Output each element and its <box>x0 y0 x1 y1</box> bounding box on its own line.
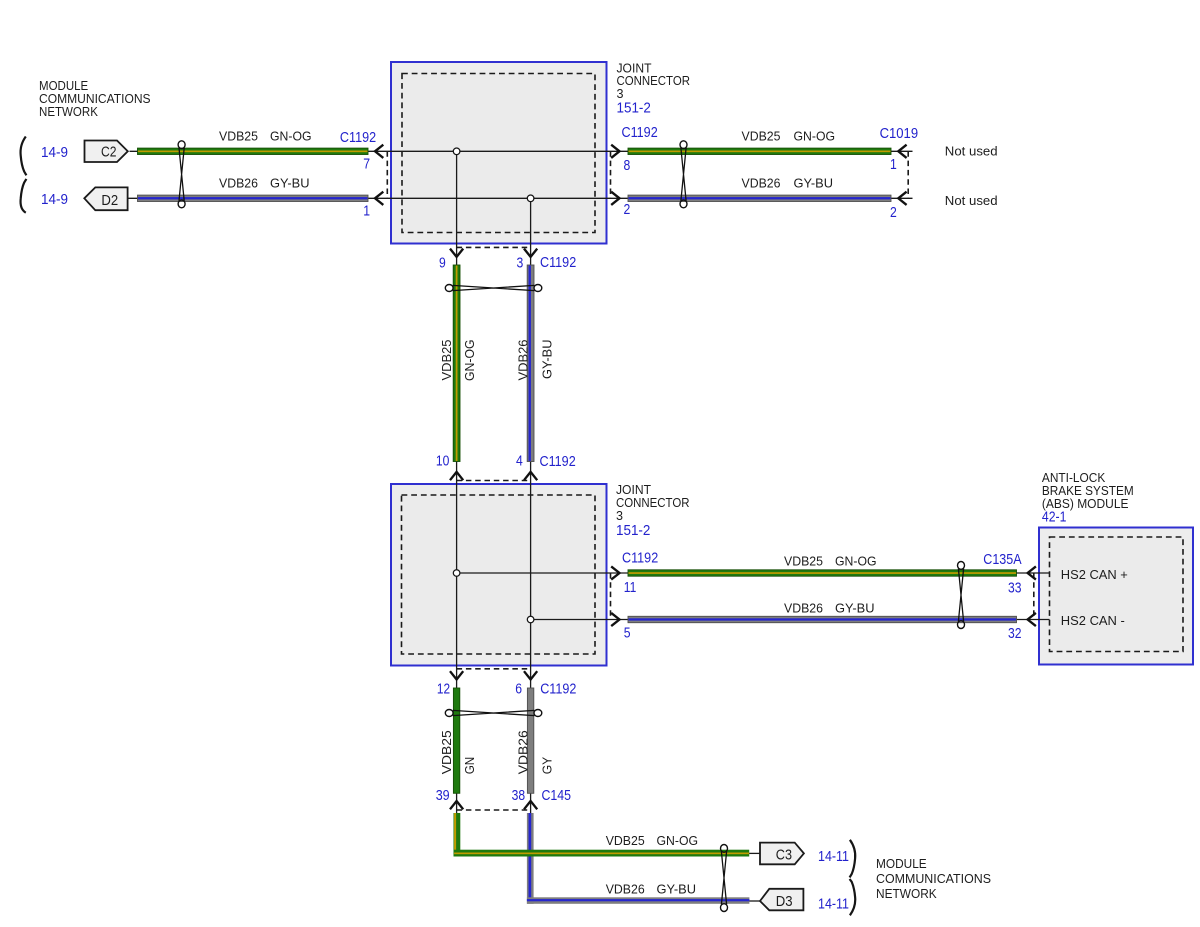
svg-text:C1192: C1192 <box>622 125 658 141</box>
svg-text:GY-BU: GY-BU <box>540 340 555 380</box>
svg-text:38: 38 <box>512 788 525 804</box>
svg-text:GY: GY <box>540 757 555 775</box>
svg-text:C1019: C1019 <box>880 126 919 142</box>
svg-text:GY-BU: GY-BU <box>794 176 834 191</box>
svg-text:10: 10 <box>436 454 450 470</box>
svg-text:Not used: Not used <box>945 193 998 208</box>
svg-text:VDB26: VDB26 <box>516 730 531 774</box>
svg-text:C2: C2 <box>101 145 117 161</box>
svg-text:D2: D2 <box>101 193 118 209</box>
svg-text:NETWORK: NETWORK <box>39 104 98 119</box>
svg-text:C1192: C1192 <box>622 551 658 567</box>
svg-text:1: 1 <box>363 204 370 220</box>
svg-text:33: 33 <box>1008 581 1022 597</box>
svg-text:GN-OG: GN-OG <box>835 554 877 569</box>
svg-text:32: 32 <box>1008 626 1022 642</box>
svg-text:VDB25: VDB25 <box>219 129 258 144</box>
svg-text:5: 5 <box>624 626 631 642</box>
svg-text:D3: D3 <box>776 894 793 910</box>
svg-text:2: 2 <box>890 205 897 221</box>
svg-text:14-11: 14-11 <box>818 849 849 865</box>
svg-text:2: 2 <box>624 202 631 218</box>
svg-text:14-9: 14-9 <box>41 145 68 161</box>
svg-text:VDB25: VDB25 <box>784 554 823 569</box>
svg-text:HS2 CAN +: HS2 CAN + <box>1061 567 1128 582</box>
svg-text:C135A: C135A <box>983 552 1022 568</box>
svg-text:3: 3 <box>517 255 524 271</box>
svg-text:GY-BU: GY-BU <box>270 176 310 191</box>
svg-text:9: 9 <box>439 255 446 271</box>
svg-text:VDB25: VDB25 <box>439 730 454 774</box>
svg-text:39: 39 <box>436 788 450 804</box>
svg-text:VDB26: VDB26 <box>219 176 258 191</box>
svg-text:12: 12 <box>437 682 450 698</box>
svg-text:11: 11 <box>624 580 637 596</box>
svg-text:VDB26: VDB26 <box>516 340 531 381</box>
svg-text:6: 6 <box>515 682 522 698</box>
svg-text:C1192: C1192 <box>340 130 376 146</box>
svg-text:C145: C145 <box>542 788 572 804</box>
svg-text:GY-BU: GY-BU <box>835 600 875 615</box>
svg-text:GN-OG: GN-OG <box>270 129 312 144</box>
svg-text:GN-OG: GN-OG <box>794 129 836 144</box>
svg-text:1: 1 <box>890 157 897 173</box>
svg-text:C1192: C1192 <box>540 255 576 271</box>
svg-text:GN-OG: GN-OG <box>657 833 699 848</box>
svg-text:3: 3 <box>617 86 624 101</box>
svg-text:8: 8 <box>624 158 631 174</box>
svg-text:C1192: C1192 <box>540 682 576 698</box>
svg-text:3: 3 <box>616 508 623 523</box>
svg-text:42-1: 42-1 <box>1042 509 1067 525</box>
svg-text:Not used: Not used <box>945 143 998 158</box>
svg-text:7: 7 <box>363 157 370 173</box>
svg-text:C1192: C1192 <box>540 454 576 470</box>
svg-text:CONNECTOR: CONNECTOR <box>616 495 690 510</box>
svg-text:VDB26: VDB26 <box>742 176 781 191</box>
svg-text:GN: GN <box>462 757 477 775</box>
svg-text:GY-BU: GY-BU <box>657 882 697 897</box>
svg-text:VDB25: VDB25 <box>439 340 454 381</box>
svg-text:GN-OG: GN-OG <box>462 340 477 382</box>
svg-text:C3: C3 <box>776 847 792 863</box>
svg-text:HS2 CAN -: HS2 CAN - <box>1061 613 1125 628</box>
svg-text:151-2: 151-2 <box>616 523 650 539</box>
svg-text:MODULE: MODULE <box>876 856 927 871</box>
svg-text:VDB25: VDB25 <box>742 129 781 144</box>
svg-text:151-2: 151-2 <box>617 100 651 116</box>
svg-text:VDB25: VDB25 <box>606 833 645 848</box>
svg-text:CONNECTOR: CONNECTOR <box>617 73 691 88</box>
svg-text:COMMUNICATIONS: COMMUNICATIONS <box>876 871 991 886</box>
svg-text:VDB26: VDB26 <box>784 600 823 615</box>
svg-text:NETWORK: NETWORK <box>876 886 937 901</box>
svg-text:14-11: 14-11 <box>818 897 849 913</box>
svg-text:VDB26: VDB26 <box>606 882 645 897</box>
svg-text:4: 4 <box>516 454 523 470</box>
svg-text:14-9: 14-9 <box>41 192 68 208</box>
